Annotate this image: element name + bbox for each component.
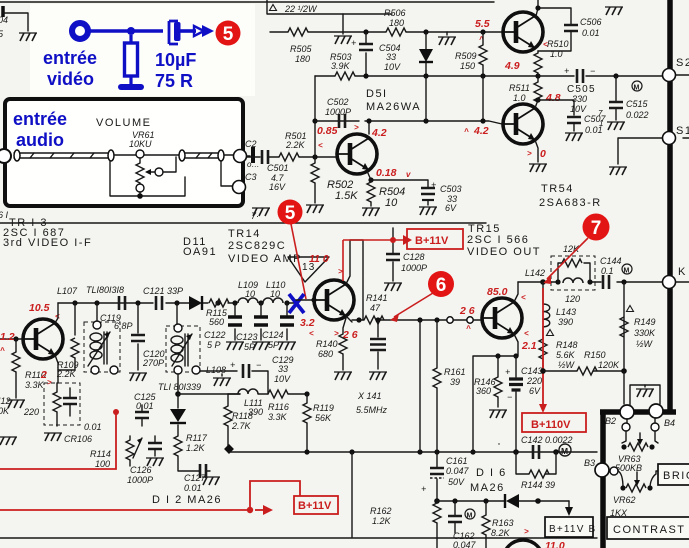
capacitor C119 trim — [74, 303, 76, 335]
node small under B2 — [622, 423, 630, 431]
ground top right — [605, 7, 623, 15]
svg-text:B4: B4 — [664, 418, 675, 428]
transistor Q505 — [503, 12, 543, 52]
potentiometer VR63 — [622, 431, 658, 443]
capacitor 10uF (blue) — [169, 21, 178, 44]
svg-text:270P: 270P — [142, 358, 164, 368]
svg-text:audio: audio — [16, 130, 64, 150]
svg-text:220: 220 — [23, 407, 39, 417]
svg-text:C501: C501 — [267, 163, 289, 173]
svg-text:R118: R118 — [232, 411, 253, 421]
red leader 6 — [394, 293, 433, 317]
svg-text:M: M — [634, 85, 640, 92]
svg-text:+: + — [351, 38, 356, 48]
ground far left — [0, 437, 17, 445]
arrow (blue) — [194, 26, 204, 36]
transformer T107 — [84, 322, 120, 372]
resistor R141 — [364, 316, 384, 324]
svg-text:VIDEO OUT: VIDEO OUT — [467, 246, 541, 258]
svg-text:6 I: 6 I — [0, 210, 9, 220]
potentiometer VR61 — [136, 150, 144, 158]
svg-text:R162: R162 — [370, 506, 392, 516]
svg-text:0.01: 0.01 — [582, 28, 600, 38]
svg-text:+: + — [421, 484, 426, 494]
svg-text:L143: L143 — [556, 307, 576, 317]
svg-text:6V: 6V — [445, 203, 457, 213]
svg-text:6: 6 — [436, 275, 447, 296]
svg-text:39: 39 — [450, 377, 460, 387]
diode D16 — [506, 494, 519, 508]
transistor Q2 — [503, 104, 543, 144]
crystal X141 — [377, 320, 379, 369]
svg-text:B2: B2 — [605, 416, 616, 426]
resistor in box — [53, 392, 61, 412]
wire: long rail y452 — [229, 451, 597, 453]
svg-text:10.5: 10.5 — [29, 302, 50, 314]
svg-text:K: K — [678, 266, 687, 278]
wire: R509 to Q2 base — [483, 76, 502, 124]
svg-text:0.022: 0.022 — [626, 110, 649, 120]
svg-text:1000P: 1000P — [401, 263, 427, 273]
wire — [4, 13, 28, 31]
node — [363, 29, 368, 34]
red leader 7 — [547, 238, 588, 279]
wire stub to ground — [342, 14, 344, 34]
wire (blue) — [88, 29, 163, 33]
resistor R510 — [537, 51, 539, 76]
svg-text:1000P: 1000P — [127, 475, 153, 485]
svg-text:C502: C502 — [327, 97, 349, 107]
nodes — [304, 449, 309, 454]
wire: IF rail — [58, 302, 296, 304]
capacitor C162 + M — [452, 498, 457, 503]
svg-text:o…: o… — [247, 160, 259, 169]
svg-text:3.3K: 3.3K — [268, 412, 288, 422]
wire: Q2 collector — [535, 100, 538, 108]
resistor R509 — [482, 32, 484, 76]
resistor R506 — [386, 28, 406, 36]
node — [423, 29, 428, 34]
svg-text:L108: L108 — [206, 365, 226, 375]
capacitor in box — [63, 398, 77, 404]
svg-text:<: < — [524, 329, 529, 338]
capacitor C126 — [148, 443, 162, 449]
svg-text:4.2: 4.2 — [371, 127, 387, 139]
resistor R162 — [433, 503, 441, 523]
grounds upper area of bottom-middle — [498, 443, 500, 445]
node C3 — [233, 181, 246, 194]
red wire: AGC line — [0, 412, 116, 469]
wire: TR15 emitter chain — [473, 334, 518, 452]
resistor R503 — [335, 72, 355, 80]
svg-text:04: 04 — [0, 15, 8, 25]
svg-text:R161: R161 — [444, 367, 466, 377]
marker circle 5 — [278, 200, 303, 225]
svg-text:R509: R509 — [455, 51, 477, 61]
svg-text:2SC I 566: 2SC I 566 — [467, 234, 529, 246]
svg-text:entrée: entrée — [43, 48, 97, 68]
capacitor C161 — [436, 452, 438, 500]
svg-text:C507: C507 — [584, 114, 607, 124]
resistor R117 — [177, 425, 179, 436]
svg-text:R148: R148 — [556, 340, 578, 350]
svg-text:L142: L142 — [525, 268, 545, 278]
node S2 — [663, 69, 676, 82]
capacitor C125 — [135, 412, 149, 418]
resistor R116 — [268, 390, 288, 398]
svg-text:8.2K: 8.2K — [491, 528, 511, 538]
capacitor C505 — [538, 75, 666, 77]
svg-text:C127: C127 — [184, 473, 207, 483]
svg-text:TR14: TR14 — [228, 228, 261, 240]
svg-text:<: < — [309, 329, 314, 338]
resistor R505 — [288, 28, 308, 36]
svg-text:B+11V: B+11V — [298, 500, 332, 512]
svg-text:2: 2 — [40, 369, 47, 381]
M symbol — [622, 264, 632, 274]
ground — [213, 378, 231, 386]
svg-text:120: 120 — [565, 294, 580, 304]
svg-text:−: − — [507, 392, 512, 402]
node K — [663, 276, 676, 289]
wire: emitter chain down — [57, 370, 59, 383]
resistor R504 — [367, 171, 371, 182]
node S1 — [618, 138, 689, 164]
red box B+11V — [407, 229, 463, 249]
svg-text:+: + — [564, 66, 569, 76]
svg-text:<: < — [521, 293, 526, 302]
capacitor C2 plate — [251, 147, 255, 163]
svg-text:^: ^ — [0, 346, 5, 355]
capacitor C142 loop — [513, 449, 519, 455]
wire: x352 drop — [351, 452, 353, 537]
M symbol — [632, 81, 642, 91]
capacitor C144 — [603, 275, 609, 289]
capacitor C502 — [339, 114, 345, 128]
box BRIGHT — [658, 464, 689, 485]
svg-text:33: 33 — [386, 52, 396, 62]
svg-text:X 141: X 141 — [357, 391, 382, 401]
node — [304, 391, 309, 396]
node B2 — [620, 405, 634, 419]
wire: collector stub — [368, 121, 370, 134]
wire: red leader 5 to base — [291, 224, 306, 299]
capacitor C127 — [200, 464, 206, 478]
svg-text:R163: R163 — [492, 518, 514, 528]
svg-text:v: v — [406, 170, 411, 179]
svg-text:B3: B3 — [584, 458, 595, 468]
svg-text:16V: 16V — [269, 182, 286, 192]
svg-text:R506: R506 — [384, 8, 406, 18]
svg-text:10V: 10V — [384, 62, 401, 72]
node — [480, 29, 485, 34]
svg-text:^: ^ — [466, 324, 471, 333]
potentiometer VR62 — [618, 471, 658, 488]
capacitor C120 — [137, 303, 139, 370]
svg-text:2SC829C: 2SC829C — [228, 240, 286, 252]
open nodes — [447, 317, 453, 323]
svg-text:OA91: OA91 — [183, 246, 217, 258]
svg-text:C503: C503 — [440, 184, 462, 194]
wire: TR14 base — [296, 299, 314, 301]
ground — [446, 32, 448, 35]
svg-text:C515: C515 — [626, 99, 649, 109]
blue X mark — [289, 294, 304, 313]
svg-text:3.3K: 3.3K — [25, 380, 45, 390]
ground (blue) — [118, 84, 144, 90]
node: entree video jack — [72, 23, 88, 39]
svg-text:D5I: D5I — [366, 88, 388, 100]
svg-text:M: M — [467, 513, 473, 520]
svg-text:3rd VIDEO I-F: 3rd VIDEO I-F — [3, 237, 92, 249]
svg-text:>: > — [527, 149, 532, 158]
C129 cap — [192, 366, 200, 374]
svg-text:50V: 50V — [448, 477, 465, 487]
dashed box lower-left — [44, 383, 80, 425]
svg-text:R511: R511 — [509, 83, 530, 93]
wire: Q2 emitter to ground — [535, 140, 538, 162]
svg-text:0.1: 0.1 — [601, 266, 614, 276]
svg-text:2.1: 2.1 — [521, 340, 537, 352]
dashed box 12K/120 — [551, 256, 595, 290]
svg-text:2 6: 2 6 — [459, 305, 475, 317]
svg-text:>: > — [524, 527, 529, 536]
svg-text:1.2K: 1.2K — [372, 516, 392, 526]
wire: rail2 — [315, 75, 538, 77]
svg-text:C124: C124 — [262, 330, 284, 340]
svg-text:10V: 10V — [570, 104, 587, 114]
svg-text:VIDEO AMP: VIDEO AMP — [228, 253, 302, 265]
capacitor C501 — [262, 150, 268, 164]
resistor R148 — [542, 327, 544, 339]
svg-text:MA26WA: MA26WA — [366, 101, 421, 113]
svg-text:3.2: 3.2 — [300, 317, 315, 329]
svg-text:−: − — [590, 66, 595, 76]
capacitor C143 — [515, 356, 517, 452]
wire — [224, 154, 234, 156]
node small right of B3 — [610, 467, 618, 475]
svg-text:1.2: 1.2 — [0, 331, 15, 343]
svg-text:6V: 6V — [529, 386, 541, 396]
capacitor (edge component) — [1, 6, 5, 17]
svg-text:4.2: 4.2 — [473, 125, 489, 137]
wire: pot bottom — [110, 161, 185, 196]
node — [312, 154, 317, 159]
red wire to B+110V — [542, 288, 544, 404]
svg-text:D I 6: D I 6 — [476, 467, 507, 479]
svg-text:7: 7 — [591, 218, 602, 239]
bus: lower vertical — [600, 410, 606, 548]
diode D11 — [189, 296, 202, 310]
svg-text:10: 10 — [385, 197, 398, 209]
nodes — [72, 300, 77, 305]
svg-text:0.01: 0.01 — [84, 422, 102, 432]
svg-text:11.0: 11.0 — [545, 540, 565, 548]
capacitor C503 — [368, 177, 373, 182]
wire: y501 line — [437, 500, 569, 502]
wire (blue) — [180, 29, 196, 33]
resistor R150 — [543, 370, 624, 372]
svg-text:0.85: 0.85 — [317, 125, 338, 137]
wire: down to B2 — [623, 371, 625, 404]
wire: output rail — [352, 319, 481, 321]
svg-text:VR62: VR62 — [613, 495, 636, 505]
wire: x420 riser — [419, 320, 421, 452]
svg-text:330K: 330K — [634, 328, 656, 338]
svg-text:11 0: 11 0 — [309, 253, 329, 265]
svg-text:BRIG: BRIG — [663, 470, 689, 482]
svg-text:B+110V: B+110V — [531, 419, 571, 431]
svg-text:0.01: 0.01 — [184, 483, 202, 493]
svg-text:10: 10 — [245, 289, 255, 299]
svg-text:2SA683-R: 2SA683-R — [539, 197, 602, 209]
svg-text:R144 39: R144 39 — [521, 480, 555, 490]
svg-text:680: 680 — [318, 349, 333, 359]
caps C122 C123 C124 — [234, 303, 236, 340]
box B+11V B — [545, 517, 593, 537]
svg-text:½W: ½W — [558, 360, 576, 370]
inductor 120 — [563, 278, 583, 283]
svg-text:C122: C122 — [204, 330, 226, 340]
svg-text:75 R: 75 R — [155, 71, 193, 91]
node junction (blue) — [127, 27, 135, 35]
node C2 — [234, 150, 247, 163]
svg-text:0K: 0K — [0, 406, 10, 416]
box CONTRAST — [607, 517, 689, 539]
svg-text:33: 33 — [278, 364, 288, 374]
wire: collector line y282 — [518, 281, 662, 283]
wire: C506 bottom to emitter node — [538, 31, 571, 51]
transistor driver — [337, 134, 377, 174]
node — [621, 279, 626, 284]
test point triangle 13 — [288, 257, 329, 282]
resistor R109 — [71, 338, 79, 358]
svg-text:5.6K: 5.6K — [556, 350, 576, 360]
svg-text:C128: C128 — [403, 252, 425, 262]
svg-text:1.2K: 1.2K — [186, 443, 206, 453]
nodes on rail — [356, 317, 361, 322]
bus: horizontal — [600, 409, 676, 415]
arrow into B+11V B — [568, 501, 570, 510]
svg-text:3.9K: 3.9K — [331, 61, 351, 71]
diode D51 — [425, 32, 427, 76]
svg-text:22 ¹/2W: 22 ¹/2W — [284, 4, 318, 14]
resistor R502 — [314, 157, 316, 163]
svg-text:R140: R140 — [316, 339, 338, 349]
svg-text:R510: R510 — [547, 39, 569, 49]
svg-text:C506: C506 — [580, 17, 602, 27]
svg-text:100: 100 — [95, 459, 110, 469]
inductor L111 — [238, 389, 258, 394]
capacitor C506 — [564, 25, 578, 31]
svg-text:TR54: TR54 — [541, 183, 574, 195]
node small under B4 — [651, 423, 659, 431]
svg-text:0.01: 0.01 — [136, 401, 154, 411]
svg-text:S2: S2 — [676, 57, 689, 69]
resistor 12K — [562, 259, 582, 267]
junction diamond — [224, 444, 234, 454]
wire — [114, 154, 179, 156]
svg-text:TLI 80I339: TLI 80I339 — [158, 382, 201, 392]
svg-text:5.5: 5.5 — [475, 18, 490, 30]
svg-text:>: > — [334, 329, 339, 338]
svg-text:C143: C143 — [521, 366, 543, 376]
wire: base from edge — [0, 338, 23, 340]
svg-text:<: < — [318, 141, 323, 150]
node — [535, 498, 541, 504]
wire: shielded cable — [14, 153, 110, 158]
svg-text:CONTRAST: CONTRAST — [613, 524, 686, 536]
connector — [179, 150, 185, 161]
svg-text:R149: R149 — [634, 317, 656, 327]
red wire to box — [343, 240, 403, 281]
ground — [44, 433, 62, 441]
svg-text:0.01: 0.01 — [585, 125, 603, 135]
svg-text:D I 2 MA26: D I 2 MA26 — [152, 494, 222, 506]
resistor R501 — [279, 153, 299, 161]
resistor R161 — [436, 320, 438, 368]
inductor L110 — [263, 298, 283, 303]
wire: L111 net — [177, 393, 179, 395]
inductor L143 — [542, 282, 544, 303]
capacitor C118 — [119, 296, 125, 310]
wire: x315 vertical — [314, 76, 316, 157]
svg-text:4.8: 4.8 — [545, 92, 561, 104]
svg-text:180: 180 — [295, 54, 310, 64]
box: audio section — [5, 99, 243, 206]
label 22 1/2W — [270, 5, 277, 11]
wire to C3 — [221, 161, 233, 186]
svg-text:R114: R114 — [90, 449, 111, 459]
svg-text:S1: S1 — [676, 125, 689, 137]
ground — [419, 207, 437, 215]
svg-text:560: 560 — [209, 317, 224, 327]
svg-text:C123: C123 — [236, 332, 258, 342]
ground — [607, 122, 625, 130]
svg-text:VOLUME: VOLUME — [96, 117, 151, 129]
svg-text:B+11V: B+11V — [415, 235, 449, 247]
svg-text:vidéo: vidéo — [47, 69, 94, 89]
svg-text:>: > — [354, 123, 359, 132]
svg-text:B+11V B: B+11V B — [549, 524, 596, 535]
svg-text:+: + — [505, 367, 510, 377]
svg-text:0.047: 0.047 — [453, 540, 477, 548]
capacitor C504 — [365, 32, 367, 76]
wire: TR13 collector — [55, 303, 58, 323]
capacitor C507 — [567, 117, 581, 123]
svg-text:10µF: 10µF — [155, 50, 196, 70]
transistor TR14 — [314, 280, 354, 320]
svg-text:R119: R119 — [313, 403, 334, 413]
svg-text:0.047: 0.047 — [446, 466, 470, 476]
svg-text:10: 10 — [270, 289, 280, 299]
svg-text:0.18: 0.18 — [376, 167, 397, 179]
wire: TR15 collector — [514, 282, 518, 302]
svg-text:−: − — [256, 360, 261, 370]
ground — [334, 36, 352, 44]
svg-text:C121 33P: C121 33P — [143, 286, 183, 296]
svg-text:R116: R116 — [268, 402, 289, 412]
svg-text:180: 180 — [389, 18, 404, 28]
node B4 — [649, 404, 663, 418]
svg-text:150: 150 — [460, 61, 475, 71]
wire: top edge line — [0, 1, 494, 3]
svg-text:5P: 5P — [268, 340, 279, 350]
svg-text:6.8P: 6.8P — [114, 321, 133, 331]
svg-text:120K: 120K — [598, 360, 620, 370]
node B3 — [595, 463, 609, 477]
node — [434, 498, 440, 504]
